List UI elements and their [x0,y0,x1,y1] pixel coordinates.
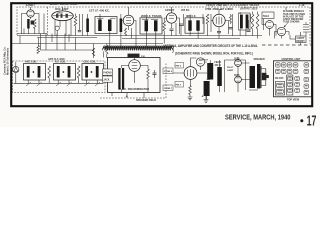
svg-text:PIN 7: PIN 7 [176,84,182,86]
resistor R9 [92,48,94,56]
tube V3 12SQ7 [166,13,176,23]
tube V4 [213,14,225,26]
IF transformer T3 box [185,18,204,33]
svg-text:4 WATT: 4 WATT [296,37,305,40]
svg-text:PHONO: PHONO [103,72,112,74]
capacitor C2 [78,30,81,32]
svg-text:OUTPUT: OUTPUT [199,60,209,62]
wire AVC bus [12,43,163,45]
IF transformer T1 box [95,17,117,34]
svg-text:50L6: 50L6 [263,14,269,18]
resistor R11 [48,66,51,78]
svg-text:PILOT: PILOT [227,67,234,69]
svg-text:+: + [202,95,204,99]
arrow [284,23,288,28]
svg-text:ANTENNA, AMPLIFIER AND CONVERT: ANTENNA, AMPLIFIER AND CONVERTER CIRCUIT… [163,44,258,48]
field coil L6 [217,67,222,86]
wire inset [290,32,301,45]
tube V6 alt [277,27,285,35]
left inner box [275,82,284,96]
oscillator assembly U-OSC (ellipse) [52,11,74,21]
capacitor C7 [179,23,183,25]
power transformer T6 [250,66,256,88]
svg-text:CONN 2: CONN 2 [164,71,173,73]
wire V2 top cap [128,7,130,15]
resistor R15 [230,14,232,24]
svg-text:Model L-10 Schematic: Model L-10 Schematic [6,47,10,75]
svg-text:1ST I.F. 456 KC.: 1ST I.F. 456 KC. [89,8,110,12]
resistor R7 [256,14,259,29]
trimmer arrows [26,82,100,86]
label conn boxes [163,68,173,74]
resistor R13 [147,69,150,79]
svg-text:SPEAKER: SPEAKER [254,58,265,61]
tube V1 12SK7 [27,10,34,17]
resistor R1 [34,19,37,29]
svg-text:TOP VIEW: TOP VIEW [287,98,300,101]
middle tall box [287,75,293,95]
col4 buttons [295,76,300,80]
tube V8 driver [196,58,204,66]
svg-text:12SQ7: 12SQ7 [165,8,175,12]
tube V7 [129,60,141,72]
wire interconnects [20,34,94,59]
extra wires density [176,7,289,39]
svg-text:L-10: L-10 [299,3,305,7]
svg-text:12SA7 CONV. OSC: 12SA7 CONV. OSC [50,2,78,6]
resistor R14 [189,86,192,95]
capacitor C4 [170,28,174,30]
coil L5 [246,15,249,29]
svg-text:R.F. COIL: R.F. COIL [55,61,66,64]
svg-text:17: 17 [307,113,317,127]
resistor R2 [74,16,77,26]
svg-text:LAMP: LAMP [227,69,234,72]
footer bullet [300,119,303,122]
wire mid hline [41,49,94,51]
wire V2 leads [121,21,136,31]
svg-text:(SCHEMATIC PAGE SHOWN, MODEL R: (SCHEMATIC PAGE SHOWN, MODEL RCH, FOR FU… [175,51,253,55]
transformer T4 [118,68,120,90]
wire lower bus [122,38,240,40]
svg-text:CONN 7: CONN 7 [164,88,173,90]
svg-text:455 KC: 455 KC [181,9,190,12]
output transformer T5 [207,63,213,80]
output trans box [239,13,251,30]
svg-text:12A8GT 50L6GT: 12A8GT 50L6GT [238,3,260,7]
border frame [11,3,312,106]
svg-text:PIN 2: PIN 2 [176,65,182,67]
trimmers T1 [97,17,116,19]
coil L1 [27,19,29,29]
wire drops into band [110,36,156,47]
svg-text:12SA7: 12SA7 [57,11,64,14]
button row 1 [275,63,280,67]
wire V4 leads [211,10,229,35]
svg-text:OSC. COIL: OSC. COIL [84,61,97,64]
svg-text:TUBE SHOWN: TUBE SHOWN [283,21,300,24]
svg-text:3RD I.F.: 3RD I.F. [186,14,196,18]
discriminator box [108,58,161,93]
wire power [220,60,259,92]
resistor R5 [206,14,209,24]
wire B+ bus [17,35,262,37]
tube V2 12SK7 IF [123,15,134,26]
wire osc leads [55,7,71,36]
tube V5 [266,21,274,29]
resistor R4 [163,21,166,31]
shield enclosure dashed box [17,7,310,44]
wire disc drops [112,93,144,99]
heater ladder [303,22,309,36]
svg-text:12SQ7 2ND DET. A.V.C.: 12SQ7 2ND DET. A.V.C. [206,3,239,7]
wire V3 leads [164,7,179,44]
coil box C [82,64,104,81]
coil box B [54,64,76,81]
svg-text:12SK7: 12SK7 [26,3,36,7]
svg-text:FIELD: FIELD [215,62,222,64]
resistor R8 [37,46,40,54]
svg-text:ANT. COIL: ANT. COIL [25,61,37,64]
button row 2 [275,69,280,73]
box ballast [296,36,307,43]
svg-text:RESIST.: RESIST. [296,41,305,43]
col5 buttons [304,77,309,81]
loop cable band [103,48,173,51]
wire T3 leads [190,15,198,39]
coil L3 [120,19,123,33]
wire cluster [240,12,257,39]
pushbutton box [274,61,312,97]
svg-text:OUTPUT 35Z5: OUTPUT 35Z5 [240,7,258,11]
capacitor C8 [247,29,251,31]
wire rect links [225,57,250,90]
capacitor C9 [229,27,233,29]
svg-text:JACK: JACK [103,78,110,81]
tube V9 output [184,67,197,80]
svg-text:A.F.C. DISCRIMINATOR: A.F.C. DISCRIMINATOR [120,87,150,91]
svg-text:SERVICE, MARCH, 1940: SERVICE, MARCH, 1940 [225,115,291,122]
dashed gang box [13,61,106,93]
coil box A [24,64,46,81]
resistor R12 [77,66,80,78]
tube V11 rect2 [235,76,242,83]
wire disc [122,58,149,93]
wire T1 leads [88,14,121,36]
dashed cable bottom [100,64,166,99]
dashed link to control unit [262,44,311,46]
svg-text:2ND I.F. TRANS.: 2ND I.F. TRANS. [141,14,163,18]
wire section1 bottom [24,14,44,35]
resistor R10 [106,45,108,54]
resistor R6 [251,14,254,29]
wire V9 [173,58,207,86]
IF transformer T2 box [140,18,162,34]
ground G2 [204,96,209,102]
resistor R3 [125,28,127,36]
padder trimmer CT1 [55,26,59,30]
capacitor C6 [153,72,157,74]
ground G1 [188,95,193,100]
coil L4 [240,15,243,29]
capacitor C5 [217,31,221,33]
component dark blob [128,54,140,58]
wire V1 leads [22,7,40,34]
phono jack boxes [103,69,113,75]
svg-text:P.M.: P.M. [141,56,146,58]
wire V5 leads [262,19,276,36]
antenna symbol [13,66,19,72]
svg-text:450 Ω: 450 Ω [215,64,221,67]
box spkr plug [262,12,274,19]
svg-text:ON-OFF: ON-OFF [275,78,284,80]
wire T2 leads [146,15,156,39]
wire gang bottom [14,82,104,84]
coil L2 [86,19,89,33]
capacitor C1 [31,21,34,25]
tube V10 rect1 [235,60,242,67]
svg-text:SPEAKER FIELD: SPEAKER FIELD [136,99,156,102]
